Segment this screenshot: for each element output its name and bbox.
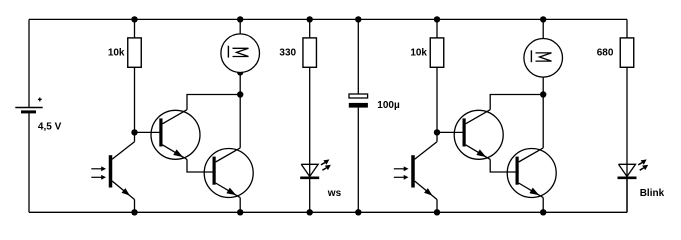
label: LED name right [640,188,665,199]
svg-text:ws: ws [327,188,342,199]
wire: base lead to upper transistor left [135,131,163,133]
svg-text:10k: 10k [410,48,427,59]
wire: motor M2 to collector node [542,77,544,94]
transistor Q2 NPN lower left [204,148,253,198]
wire: top supply rail [29,18,627,20]
node: junction dot bottom rail / emitter left [237,209,243,215]
node: junction dot motor / collectors right [540,91,546,97]
label: 100u value [377,100,400,111]
wire: top rail to motor M2 [542,19,544,38]
LED D2 Blink [618,159,649,177]
wire: left rail from top corner down to battery + [28,19,30,107]
node: junction dot bottom rail / phototransistor left [131,209,137,215]
label: battery + sign [38,98,42,102]
node: junction dot top rail / 10k left [131,16,137,22]
wire: left rail from battery - down to bottom corner [28,112,30,212]
wire: motor M1 to collector node [239,73,241,95]
wire: top rail to motor M1 [239,19,241,34]
label: 4,5 V value [38,122,62,133]
wire: bottom-right corner up to Blink LED cathode [626,178,628,213]
wire: phototransistor emitter to bottom rail right [436,200,438,213]
svg-text:4,5 V: 4,5 V [38,122,62,133]
node: junction dot bottom rail / emitter right [540,209,546,215]
LED D1 ws [300,159,331,177]
resistor R1 10k left [128,38,142,67]
node: junction dot top rail / 330 resistor [307,16,313,22]
wire: Q1 collector up and over to motor node left [187,95,240,110]
node: junction dot motor / collectors left [237,91,243,97]
wire: top rail down to capacitor C1 [357,19,359,94]
svg-text:680: 680 [597,48,614,59]
wire: base lead to upper transistor right [437,131,466,133]
transistor Q3 NPN upper right [454,110,503,160]
node: junction dot bottom rail / capacitor [355,209,361,215]
node: junction dot base node right [434,129,440,135]
node: junction dot top rail / motor M1 [237,16,243,22]
label: LED name left [327,188,342,199]
phototransistor PT1 left [91,142,134,200]
wire: 680 resistor down through LED [626,67,628,212]
svg-text:10k: 10k [108,48,125,59]
transistor Q1 NPN upper left [151,110,200,160]
label: 10k value right [410,48,427,59]
transistor Q4 NPN lower right [507,148,556,198]
wire: Q1 emitter down to Q2 base left [187,159,216,172]
wire: capacitor C1 down to bottom rail [357,108,359,213]
svg-text:330: 330 [279,48,296,59]
wire: 10k resistor down to base node left [134,67,136,141]
node: junction dot top rail / motor M2 [540,16,546,22]
wire: Q2 emitter to bottom rail left [239,198,241,213]
wire: Q3 collector up and over to motor node right [490,95,543,110]
wire: top rail to 10k resistor left [134,19,136,38]
wire: phototransistor emitter to bottom rail left [134,200,136,213]
motor M2 (DC motor symbol, junction blob at bottom for M1) [524,39,563,78]
wire: Q4 emitter to bottom rail right [542,198,544,213]
resistor R4 680 [620,38,634,67]
motor M1 (DC motor symbol, junction blob at bottom for M1) [221,34,260,76]
wire: Q2 collector up to motor node left [239,95,241,148]
wire: 330 resistor down through LED [309,67,311,212]
resistor R2 330 [303,38,317,67]
resistor R3 10k right [430,38,444,67]
wire: top rail to 330 resistor [309,19,311,38]
node: junction dot bottom rail / LED ws [307,209,313,215]
wire: top-right corner into 680 resistor [626,19,628,38]
svg-text:Blink: Blink [640,188,665,199]
wire: Q3 emitter down to Q4 base right [490,159,518,172]
phototransistor PT2 right [394,142,437,200]
node: junction dot top rail / capacitor [355,16,361,22]
wire: bottom ground rail [29,211,627,213]
capacitor C1 100u negative plate (solid) [349,103,368,108]
battery B1 4,5V: short negative plate [21,110,36,113]
node: junction dot bottom rail / phototransistor right [434,209,440,215]
label: 680 value [597,48,614,59]
capacitor C1 100u positive plate (outlined) [349,94,368,98]
node: junction dot base node left [131,129,137,135]
wire: top rail to 10k resistor right [436,19,438,38]
svg-text:100µ: 100µ [377,100,400,111]
label: 10k value left [108,48,125,59]
wire: 10k resistor down to base node right [436,67,438,141]
label: 330 value [279,48,296,59]
battery B1 4,5V: long positive plate [15,107,42,109]
wire: Q4 collector up to motor node right [542,95,544,148]
node: junction dot top rail / 10k right [434,16,440,22]
